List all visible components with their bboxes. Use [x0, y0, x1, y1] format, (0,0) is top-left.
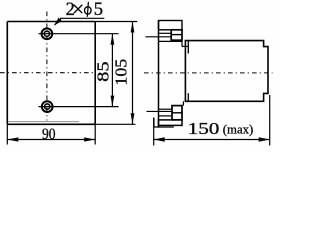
body top slot [187, 41, 189, 54]
dimension line 90 [7, 137, 95, 141]
top bracket lower line [159, 40, 183, 42]
svg-text:(max): (max) [223, 123, 254, 137]
label multiplication sign [74, 5, 82, 13]
horizontal centerline left view [0, 72, 94, 74]
top edge extension to 105 dimension [95, 21, 137, 23]
top bracket fold box [159, 21, 183, 30]
contactor body outline (side view) [185, 41, 268, 102]
side view: horizontal centerline [144, 72, 273, 74]
bottom bracket fold box [159, 120, 183, 126]
label shelf line [60, 17, 104, 19]
svg-text:90: 90 [42, 126, 56, 143]
svg-text:5: 5 [94, 0, 103, 20]
bottom bolt axis line [147, 110, 173, 112]
top screw slot line [171, 34, 182, 36]
svg-text:150: 150 [188, 119, 220, 138]
svg-text:2: 2 [66, 0, 75, 20]
extension line through top hole (85 top) [39, 33, 119, 35]
svg-text:105: 105 [111, 59, 130, 86]
bottom bracket left fold lines [159, 108, 173, 110]
extension line 150 left [153, 118, 155, 146]
dimension line 150 [154, 137, 270, 141]
bottom edge extension to 105 dimension [95, 123, 135, 125]
extension line 90 left [6, 124, 8, 144]
faint inner line near plate bottom [8, 121, 79, 123]
top bracket right edge lower [181, 40, 183, 46]
top bolt axis line [145, 36, 171, 38]
leader arrow to top hole [54, 18, 62, 26]
dimension line 105 [131, 22, 135, 125]
extension line 150 right [269, 95, 271, 146]
hole top inner circle [44, 31, 49, 36]
extension line through bottom hole (85 bottom) [39, 106, 119, 108]
hole bottom inner circle [45, 104, 50, 109]
top bracket left fold line [159, 32, 172, 34]
dimension line 85 [111, 34, 115, 107]
hole top outer circle [42, 28, 53, 39]
label phi symbol [85, 2, 92, 17]
extension line 90 right [94, 124, 96, 144]
mounting plate outline (front view) [7, 22, 95, 125]
hole bottom outer circle [42, 101, 53, 112]
top screw head box [171, 30, 182, 40]
bottom bracket-body ledge [182, 101, 184, 105]
vertical centerline through holes [46, 12, 48, 121]
bottom screw slot line [172, 112, 182, 114]
bottom foot plate [154, 118, 174, 127]
body bottom slot [187, 93, 189, 101]
bottom screw head box [172, 106, 182, 120]
top bracket-body ledge [182, 45, 188, 47]
svg-text:85: 85 [94, 61, 113, 82]
bracket plate vertical edge [158, 21, 160, 128]
